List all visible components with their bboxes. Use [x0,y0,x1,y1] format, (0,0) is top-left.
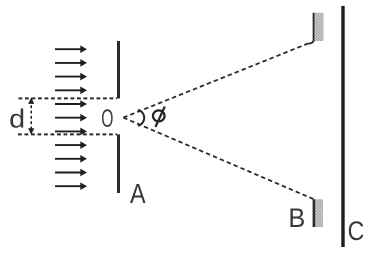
wire arrow 11 [55,182,87,190]
screen C [341,6,344,247]
slit plate A upper half [117,41,120,98]
svg-text:C: C [348,216,365,246]
node d dashed guide line top [19,97,118,99]
wire arrow 8 [55,141,87,149]
node d dimension arrow [28,98,34,135]
svg-text:B: B [288,203,305,233]
upper wall hatch mark [314,13,324,42]
wire arrow 5 [55,100,87,108]
wire arrow 9 [55,155,87,163]
wire dashed ray O to lower wall (B) [123,118,314,200]
lower wall hatch mark at B [314,199,323,227]
wire arrow 4 [55,87,87,95]
wire arrow 1 [55,45,87,53]
wire: incident plane-wave arrows (11 rays) [55,45,87,190]
node d dashed guide line bottom [18,133,117,135]
wire elbow joining ray to upper wall [309,41,314,44]
slit plate A lower half [117,134,120,193]
wire arrow 10 [55,169,87,177]
wire arrow 3 [55,73,87,81]
node angle arc [138,110,144,126]
svg-text:A: A [130,178,146,209]
node phi label [153,107,165,127]
svg-text:d: d [9,104,25,134]
wire dashed ray O to upper wall [123,43,309,118]
wire arrow 6 [55,114,87,122]
wire arrow 7 [55,128,87,136]
svg-text:O: O [101,105,113,133]
wire arrow 2 [55,59,87,67]
